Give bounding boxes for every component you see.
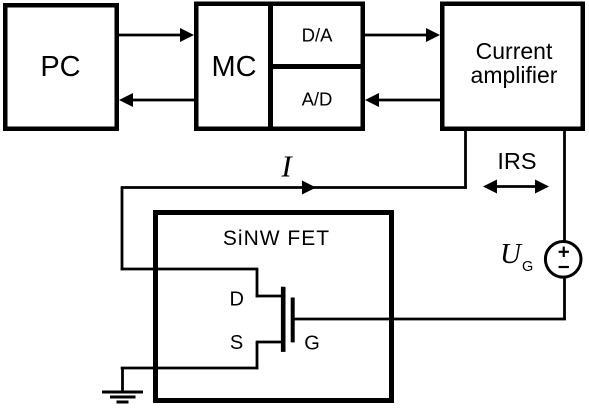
svg-text:SiNW FET: SiNW FET — [223, 227, 330, 250]
svg-text:IRS: IRS — [497, 148, 536, 174]
label UG — [500, 238, 533, 275]
arrow Current amplifier to A/D — [365, 93, 440, 107]
transistor Q1 source lead — [121, 342, 281, 369]
wire I horizontal with arrowhead — [121, 181, 467, 195]
arrow D/A to Current amplifier — [365, 28, 440, 42]
wire voltage source bottom to gate wire — [563, 278, 566, 320]
transistor Q1 channel bar — [281, 287, 286, 352]
block MC/DAC/ADC outer frame — [196, 4, 363, 129]
label I (current) — [280, 148, 293, 183]
divider D/A | A/D — [268, 64, 365, 69]
svg-text:D: D — [229, 289, 243, 311]
label MC — [211, 51, 256, 83]
block PC — [5, 5, 117, 129]
ground — [102, 368, 143, 402]
wire down from I line to drain lead — [121, 188, 259, 271]
wire Current amplifier to voltage source top — [563, 131, 566, 241]
svg-text:G: G — [304, 333, 320, 355]
transistor Q1 gate bar — [291, 298, 295, 343]
label IRS — [497, 148, 536, 174]
label SiNW FET — [223, 227, 330, 250]
label D/A — [302, 25, 334, 46]
svg-text:A/D: A/D — [302, 89, 333, 110]
label A/D — [302, 89, 333, 110]
svg-text:PC: PC — [40, 51, 80, 83]
block SiNW FET — [156, 213, 392, 401]
voltage source UG — [545, 241, 581, 277]
svg-text:S: S — [230, 332, 243, 354]
wire gate to voltage source — [293, 318, 566, 321]
arrow PC to MC — [119, 28, 194, 42]
svg-text:U: U — [500, 238, 523, 270]
svg-text:amplifier: amplifier — [471, 62, 558, 88]
transistor Q1 drain lead — [256, 269, 281, 297]
arrow MC to PC — [119, 93, 194, 107]
wire Current amplifier bottom to I line — [464, 131, 467, 189]
block Current amplifier — [442, 4, 583, 129]
svg-text:I: I — [280, 148, 293, 183]
label D (drain) — [229, 289, 243, 311]
divider MC | D/A column — [268, 2, 273, 132]
svg-text:G: G — [522, 259, 533, 275]
svg-text:Current: Current — [476, 38, 553, 64]
svg-text:MC: MC — [211, 51, 256, 83]
label G (gate) — [304, 333, 320, 355]
arrow IRS double-headed — [483, 180, 549, 194]
label S (source) — [230, 332, 243, 354]
svg-text:D/A: D/A — [302, 25, 334, 46]
